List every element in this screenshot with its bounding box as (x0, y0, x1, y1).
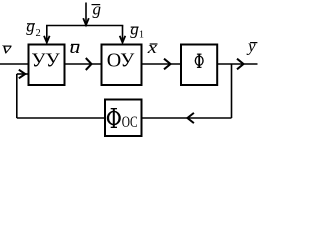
svg-text:g: g (26, 17, 35, 36)
svg-text:ОС: ОС (122, 114, 138, 131)
svg-text:ОУ: ОУ (107, 50, 135, 72)
svg-text:1: 1 (139, 30, 144, 41)
svg-text:y: y (246, 37, 256, 56)
svg-text:g: g (93, 0, 102, 19)
svg-text:x: x (147, 39, 158, 58)
svg-text:u: u (69, 38, 80, 57)
svg-text:2: 2 (36, 28, 41, 39)
svg-text:v: v (2, 39, 12, 58)
svg-text:УУ: УУ (31, 50, 60, 72)
svg-text:g: g (130, 20, 139, 39)
